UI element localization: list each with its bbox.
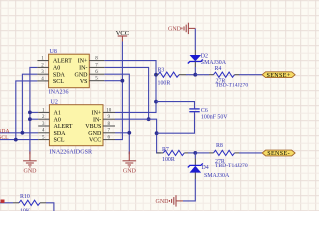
svg-text:R10: R10 — [20, 194, 30, 200]
wire: U2 pin1 A1 — [30, 111, 38, 113]
svg-text:A0: A0 — [54, 117, 61, 123]
wire: U8 pin6 GND down — [104, 74, 129, 154]
svg-text:A0: A0 — [53, 66, 60, 72]
svg-text:U8: U8 — [50, 49, 57, 55]
wire: VCC rail down to U2 pin6 — [115, 42, 122, 140]
svg-text:VS: VS — [80, 79, 88, 85]
U8 pins right — [89, 61, 104, 81]
svg-text:SMAJ30A: SMAJ30A — [204, 173, 230, 179]
wire: U8 pin5 VS — [104, 80, 122, 82]
net marker (clipped red label at left edge) — [1, 200, 5, 203]
svg-text:TBD-T14J270: TBD-T14J270 — [216, 83, 249, 89]
svg-text:SDA: SDA — [54, 131, 67, 137]
resistor R10 — [0, 202, 13, 204]
svg-text:ALERT: ALERT — [53, 59, 72, 65]
svg-text:INA236: INA236 — [49, 89, 69, 95]
svg-text:VBUS: VBUS — [85, 124, 101, 130]
node: IN- junction on pin9 wire — [147, 117, 151, 121]
U2 pin names — [54, 111, 102, 144]
node: VS/VCC junction — [121, 79, 125, 83]
svg-text:SENSE+: SENSE+ — [267, 73, 291, 79]
svg-text:R3: R3 — [158, 68, 165, 74]
node: D2 / R3 / R4 junction — [193, 73, 197, 77]
wire: SDA net to left edge — [0, 132, 38, 134]
wire: U2 pin9 IN- to lower rail — [115, 119, 161, 153]
svg-text:R8: R8 — [216, 143, 223, 149]
svg-text:IN-: IN- — [93, 117, 101, 123]
svg-text:IN+: IN+ — [78, 59, 88, 65]
svg-text:D4: D4 — [202, 165, 209, 171]
node: IN- / C6 bottom junction — [155, 131, 159, 135]
svg-text:SCL: SCL — [0, 135, 9, 141]
svg-text:100nF 50V: 100nF 50V — [201, 114, 228, 120]
svg-text:SCL: SCL — [53, 79, 64, 85]
svg-text:SCL: SCL — [54, 138, 65, 144]
svg-text:C6: C6 — [201, 108, 208, 114]
U2 pins left — [38, 112, 49, 139]
node: GND junction — [127, 131, 131, 135]
op-amp U2 box (INA226AIDGSR) — [49, 105, 103, 146]
svg-text:IN+: IN+ — [92, 111, 102, 117]
svg-text:100R: 100R — [158, 80, 171, 86]
svg-text:IN-: IN- — [79, 66, 87, 72]
wire: U8 pin7 IN- down — [104, 67, 148, 119]
U2 pins right — [103, 112, 115, 139]
port SENSE- — [262, 150, 295, 156]
wire: U8 pin3 SDA down — [22, 74, 37, 133]
svg-text:VCC: VCC — [89, 138, 101, 144]
svg-text:SENSE-: SENSE- — [267, 151, 290, 157]
svg-text:SDA: SDA — [53, 72, 66, 78]
svg-text:TBD-T14J270: TBD-T14J270 — [215, 163, 248, 169]
svg-text:R7: R7 — [162, 147, 169, 153]
svg-text:U2: U2 — [51, 99, 58, 105]
svg-text:GND: GND — [168, 26, 182, 32]
resistor R4 — [195, 74, 209, 76]
wire: U8 pin4 SCL down — [16, 81, 38, 140]
svg-text:GND: GND — [24, 169, 38, 175]
U8 pin names — [53, 59, 88, 85]
svg-text:R4: R4 — [215, 66, 222, 72]
svg-text:A1: A1 — [54, 111, 61, 117]
port SENSE+ — [262, 72, 295, 78]
node: junction A0/A1 — [28, 111, 32, 115]
U8 pins left — [37, 61, 48, 81]
svg-text:GND: GND — [88, 131, 102, 137]
wire: SCL net to left edge — [0, 139, 38, 141]
svg-text:D2: D2 — [201, 54, 208, 60]
node: SCL junction — [14, 138, 18, 142]
svg-text:INA226AIDGSR: INA226AIDGSR — [49, 149, 93, 155]
capacitor C6 — [156, 102, 195, 109]
ground GND3 (earth style) top — [194, 28, 196, 50]
wire: U2 pin7 GND — [115, 132, 129, 134]
op-amp U8 box (INA236) — [49, 54, 90, 87]
resistor R8 — [195, 152, 209, 154]
svg-text:ALERT: ALERT — [54, 124, 73, 130]
wire: U8 pin8 IN+ net — [104, 61, 156, 113]
node: D4 / R7 / R8 junction — [193, 151, 197, 155]
svg-text:10: 10 — [106, 108, 112, 113]
resistor R3 — [156, 74, 158, 76]
svg-text:GND: GND — [156, 199, 170, 205]
svg-text:SDA: SDA — [0, 128, 10, 134]
node: IN+ / C6 junction — [154, 100, 158, 104]
node: SDA junction — [21, 131, 25, 135]
resistor R7 — [157, 152, 164, 154]
wire: U2 pin2 A0 — [30, 118, 38, 120]
ground GND2 (bar style) under U8/U2 GND — [123, 152, 137, 167]
svg-text:GND: GND — [75, 72, 89, 78]
diode D2 (TVS SMAJ30A) — [194, 50, 196, 55]
svg-text:GND: GND — [123, 169, 137, 175]
wire: U8 pin2 A0 to U2 A1/A0 and down to GND stem — [30, 67, 38, 154]
ground GND1 (bar style) under A0 net — [23, 152, 37, 167]
node: IN+ / R3 junction — [154, 73, 158, 77]
diode D4 (TVS SMAJ30A) — [194, 153, 196, 159]
svg-text:10K: 10K — [20, 208, 31, 211]
ground GND4 (earth style) bottom — [170, 195, 184, 206]
svg-text:100R: 100R — [162, 157, 175, 163]
